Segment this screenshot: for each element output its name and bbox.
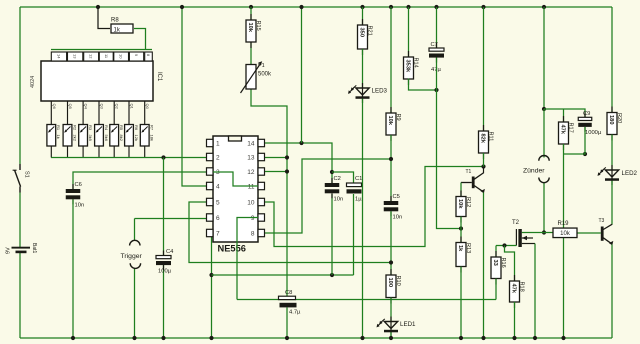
node V+ / R15 [249, 5, 253, 9]
svg-text:10k: 10k [457, 199, 463, 209]
svg-text:180: 180 [608, 115, 614, 125]
IC1 output pin Q4 lead [83, 101, 89, 125]
svg-text:C4: C4 [166, 249, 174, 255]
NE556 pin 4 [207, 182, 221, 190]
svg-text:14: 14 [247, 141, 255, 148]
svg-text:R10: R10 [395, 276, 401, 286]
wire cap ground line (C2-,C1-) [212, 274, 354, 276]
wire left supply column to battery [19, 193, 21, 248]
node GND / C4 [161, 336, 165, 340]
svg-text:S1: S1 [24, 171, 30, 178]
svg-text:R19: R19 [558, 221, 570, 227]
IC IC1 4024 body [30, 61, 162, 101]
resistor R2 [63, 125, 77, 147]
svg-text:Trigger: Trigger [121, 253, 143, 260]
capacitor C1 1µ [347, 176, 363, 203]
wire IC1 top pin bus [51, 49, 152, 51]
wire C9 top line [544, 109, 585, 117]
IC1 output pin Q6 lead [51, 101, 57, 125]
svg-text:2k2: 2k2 [72, 135, 77, 142]
wire rail right end down to R20 [611, 7, 613, 113]
resistor R11 [479, 125, 494, 159]
resistor R19 [553, 221, 577, 238]
wire R17 top lead [563, 109, 565, 122]
svg-text:C5: C5 [393, 194, 400, 200]
svg-text:Q1: Q1 [130, 104, 135, 110]
transistor T3 NPN [599, 218, 614, 245]
svg-text:82k: 82k [479, 134, 485, 144]
node pin14 / V+ drop [299, 141, 303, 145]
IC1 top pin 13 [68, 52, 83, 61]
node Zünder / T2 drain / R19 [542, 230, 546, 234]
svg-text:8k2: 8k2 [119, 135, 124, 142]
wire C2 top to C1 top [332, 172, 354, 183]
node V+ / R8 [96, 5, 100, 9]
svg-text:6: 6 [216, 215, 220, 222]
svg-text:8: 8 [251, 231, 255, 238]
svg-text:9: 9 [251, 215, 255, 222]
node T2 gate / R16 / R18 [502, 243, 506, 247]
resistor R18 [510, 275, 525, 308]
svg-text:Bat1: Bat1 [31, 243, 37, 254]
wire T2 drain line [522, 232, 553, 234]
svg-text:5k6: 5k6 [104, 135, 109, 142]
svg-text:C1: C1 [355, 176, 362, 182]
transistor T1 NPN [461, 169, 485, 193]
wire C5 to R10 node [390, 211, 392, 275]
wire internal pin9 down [237, 218, 258, 300]
LED LED3 [348, 83, 388, 103]
node GND / pin7 [209, 336, 213, 340]
node C9 bottom / R17 [583, 152, 587, 156]
wire NE556 pin 12 stub [265, 171, 288, 173]
svg-text:7: 7 [216, 231, 220, 238]
connector Zünder [523, 155, 549, 182]
resistor R9 [386, 107, 401, 141]
wire R10 to LED1 [390, 298, 392, 322]
svg-text:47k: 47k [559, 125, 565, 135]
capacitor C5 10n [384, 194, 402, 220]
IC1 top pin 10 [114, 52, 129, 61]
svg-text:4024: 4024 [30, 76, 36, 88]
svg-text:11: 11 [248, 184, 255, 191]
svg-text:10n: 10n [334, 197, 344, 203]
wire rail to R11 [483, 7, 485, 131]
capacitor C2 10n [325, 176, 343, 202]
NE556 pin 12 [247, 168, 264, 176]
node V+ / R21 [360, 5, 364, 9]
wire R15 to P1 [250, 42, 252, 65]
IC1 output pin Q0 lead [145, 101, 151, 125]
node pin12 / P1 [285, 169, 289, 173]
transistor T2 N-MOSFET [512, 220, 535, 247]
wire R5 to ground bus [113, 146, 115, 158]
wire R16 bottom to pin9 line [495, 279, 497, 300]
svg-text:13: 13 [247, 155, 255, 162]
svg-text:R18: R18 [519, 282, 525, 292]
wire V+ top rail [20, 6, 612, 8]
svg-text:9V: 9V [6, 247, 12, 254]
wire R9 to C5 node [390, 135, 392, 201]
svg-text:350: 350 [358, 28, 364, 38]
wire Trigger connector lower lead [134, 269, 136, 339]
wire battery to GND rail [19, 253, 21, 338]
NE556 pin 5 [207, 198, 221, 206]
svg-text:R21: R21 [367, 26, 373, 36]
node C4 / pin2 bus [161, 155, 165, 159]
node GND / R18 [512, 336, 516, 340]
wire LED3 to GND [362, 99, 364, 338]
wire T3 emitter to GND [611, 245, 613, 339]
wire C2 bottom lead [331, 194, 333, 275]
LED LED1 [377, 317, 417, 337]
svg-text:10n: 10n [393, 215, 403, 221]
capacitor C4 100µ [156, 249, 174, 275]
svg-text:R13: R13 [465, 243, 471, 253]
wire LED1 to GND [390, 332, 392, 338]
svg-text:R9: R9 [395, 114, 401, 121]
svg-text:R20: R20 [616, 113, 622, 123]
NE556 pin 3 [207, 168, 221, 176]
wire rail to R8 [98, 7, 110, 29]
resistor R14 [404, 51, 419, 85]
capacitor C9 1000µ [578, 111, 602, 136]
wire R16 top lead [495, 246, 497, 258]
svg-text:47k: 47k [510, 284, 516, 294]
NE556 pin 1 [207, 139, 221, 147]
svg-text:P1: P1 [258, 63, 265, 69]
wire pin9 / C8 / R16 line [237, 299, 496, 301]
NE556 pin 2 [207, 153, 221, 161]
NE556 pin 11 [248, 182, 265, 190]
wire P1 to pins 13/12 drop [251, 89, 287, 297]
wire LED2 to T3 collector [611, 181, 613, 225]
svg-text:10n: 10n [75, 203, 85, 209]
resistor R20 [607, 107, 622, 141]
NE556 pin 7 [207, 229, 221, 237]
resistor R16 [491, 251, 506, 285]
capacitor C8 4.7µ [279, 290, 302, 316]
resistor R8 [111, 18, 133, 34]
NE556 pin 14 [247, 139, 264, 147]
wire NE556 pin 13 stub [265, 157, 288, 159]
svg-text:500k: 500k [258, 72, 272, 78]
capacitor C7 47µ [429, 42, 444, 73]
wire T1 base to R12 [460, 183, 462, 197]
wire NE556 pin 7 to GND [211, 237, 213, 338]
wire R11 to T1 node [483, 153, 485, 167]
svg-text:LED1: LED1 [400, 321, 416, 328]
svg-text:12k: 12k [134, 135, 139, 141]
IC1 output pin Q3 lead [99, 101, 105, 125]
IC1 top pin 14 [51, 52, 66, 61]
wire R2 to ground bus [67, 146, 69, 158]
wire R7 to ground bus [144, 146, 146, 158]
NE556 pin 8 [251, 229, 265, 237]
svg-text:R14: R14 [413, 58, 419, 68]
svg-text:Q5: Q5 [68, 104, 73, 110]
svg-text:R6: R6 [134, 125, 139, 131]
svg-text:C9: C9 [583, 111, 590, 117]
wire C7 bottom to junction [436, 58, 438, 90]
IC1 top pin 11 [99, 52, 113, 61]
wire V+ to NE556 pin 4 [182, 7, 207, 186]
IC1 top pin 12 [84, 52, 99, 61]
IC1 top pin 8 [145, 52, 153, 61]
wire rail to R21 [362, 7, 364, 25]
wire C7 node down to R12/R13 junction [437, 90, 462, 229]
node V+ / Zünder [542, 5, 546, 9]
node GND / T2 source [533, 336, 537, 340]
svg-text:1: 1 [216, 141, 220, 148]
wire C1 bottom lead [353, 194, 355, 275]
NE556 pin 6 [207, 214, 221, 222]
NE556 pin 13 [247, 153, 264, 161]
wire R12 to R13 [460, 217, 462, 243]
wire R8 to IC1 supply pin [134, 29, 146, 50]
svg-text:Q3: Q3 [100, 104, 105, 110]
svg-text:C2: C2 [334, 176, 341, 182]
connector Trigger [121, 240, 143, 268]
NE556 pin 9 [251, 214, 265, 222]
svg-text:C6: C6 [75, 182, 82, 188]
node pin5 line / R10 [389, 260, 393, 264]
svg-text:Q2: Q2 [115, 104, 120, 110]
wire R1 to ground bus [50, 146, 52, 158]
svg-text:C7: C7 [431, 42, 438, 48]
resistor R21 [358, 19, 373, 55]
resistor R6 [125, 125, 139, 147]
node pin8 / R9 / C5 [389, 157, 393, 161]
svg-text:10: 10 [119, 54, 124, 59]
node GND / T1 emitter [481, 336, 485, 340]
svg-text:LED3: LED3 [372, 88, 388, 95]
wire T2 source to GND [534, 244, 536, 339]
node C2 bottom [330, 273, 334, 277]
wire left supply column upper [19, 7, 21, 164]
resistor R15 [246, 14, 261, 48]
battery Bat1 9V [6, 243, 38, 254]
svg-text:10k: 10k [247, 23, 253, 33]
resistor R10 [386, 269, 401, 304]
node GND / R13 [459, 336, 463, 340]
switch S1 [13, 164, 30, 193]
wire rail to R15 [250, 7, 252, 20]
resistor R7 [140, 125, 154, 147]
wire R13 to GND [460, 267, 462, 339]
svg-text:R16: R16 [500, 258, 506, 268]
node pin 3 junction [208, 170, 212, 174]
svg-text:1µ: 1µ [355, 197, 362, 203]
svg-text:14: 14 [56, 54, 61, 59]
svg-text:1k: 1k [56, 135, 61, 139]
node V+ / R11 [481, 5, 485, 9]
svg-text:T2: T2 [512, 220, 520, 226]
NE556 pin 10 [247, 198, 264, 206]
svg-text:Q0: Q0 [145, 104, 150, 110]
svg-text:R5: R5 [119, 125, 124, 131]
wire R21 to LED3 [362, 49, 364, 88]
resistor R4 [95, 125, 109, 147]
node R12 / R13 / C7 line [459, 226, 463, 230]
wire rail to C7 [436, 7, 438, 48]
node GND / LED3 [360, 336, 364, 340]
svg-text:1k: 1k [114, 27, 121, 33]
wire C4 bottom to GND [163, 265, 165, 338]
IC U2 NE556 body [213, 136, 258, 254]
node C7 / R14 [434, 88, 438, 92]
svg-text:10: 10 [247, 200, 255, 207]
svg-text:R7: R7 [150, 125, 155, 131]
resistor R13 [456, 237, 471, 273]
svg-text:33: 33 [492, 260, 498, 266]
wire R6 to ground bus [128, 146, 130, 158]
svg-text:12: 12 [247, 169, 255, 176]
wire T1 collector up [483, 167, 485, 174]
wire Zünder upper lead [543, 109, 545, 158]
svg-text:2: 2 [216, 155, 220, 162]
svg-text:Q4: Q4 [84, 104, 89, 110]
svg-text:10k: 10k [560, 231, 571, 237]
wire rail to R14 [408, 7, 410, 57]
svg-text:100µ: 100µ [158, 269, 172, 275]
IC1 output pin Q2 lead [114, 101, 120, 125]
resistor R17 [559, 116, 574, 150]
node pin13 / P1 [285, 155, 289, 159]
svg-text:12: 12 [89, 54, 94, 59]
wire T1 emitter to GND [483, 193, 485, 339]
svg-text:R11: R11 [488, 132, 494, 142]
svg-text:1k: 1k [457, 245, 463, 252]
capacitor C6 10n [66, 182, 84, 208]
node V+ / R14 [406, 5, 410, 9]
wire resistor bus to NE556 pin 2 [51, 157, 207, 159]
wire R18 to GND [514, 302, 516, 338]
svg-text:R3: R3 [88, 125, 93, 131]
svg-text:3k9: 3k9 [88, 135, 93, 142]
IC1 top pin 9 [129, 52, 143, 61]
wire V+ drop to pin14 line [301, 7, 303, 143]
node V+ / R9 [389, 5, 393, 9]
wire C8 bottom to GND [286, 307, 288, 338]
svg-text:353k: 353k [404, 60, 410, 73]
wire NE556 pin 14 to caps [265, 143, 333, 183]
resistor R1 [47, 125, 61, 147]
resistor R5 [110, 125, 124, 147]
potentiometer P1 500k [241, 61, 273, 93]
node GND / LED1 [389, 336, 393, 340]
wire R14 to C7 node [409, 79, 437, 91]
svg-text:R1: R1 [56, 125, 61, 131]
IC1 output pin Q1 lead [129, 101, 135, 125]
wire T2 gate line [496, 245, 516, 247]
wire gate node to R18 [505, 246, 515, 282]
svg-text:C8: C8 [285, 290, 292, 296]
resistor R12 [456, 191, 471, 223]
svg-text:13: 13 [73, 54, 78, 59]
wire rail to R9 [390, 7, 392, 113]
wire R20 to LED2 [611, 135, 613, 171]
svg-text:R4: R4 [104, 125, 109, 131]
wire R4 to ground bus [98, 146, 100, 158]
node GND / C6 [71, 336, 75, 340]
wire C9 bottom to R17 column [564, 127, 586, 154]
svg-text:NE556: NE556 [218, 244, 246, 254]
svg-text:4.7µ: 4.7µ [289, 310, 301, 316]
wire internal pin3 to pin11 [213, 172, 258, 186]
node C2 top / C1 top [330, 170, 334, 174]
wire C6 to NE556 pin 3 [73, 172, 207, 189]
svg-text:IC1: IC1 [156, 72, 162, 82]
wire NE556 pin 8 to R9 node [265, 159, 392, 233]
wire Zünder lower lead [543, 183, 545, 233]
svg-text:R8: R8 [111, 18, 119, 24]
svg-text:R17: R17 [568, 123, 574, 133]
wire GND bottom rail [20, 337, 612, 339]
svg-text:LED2: LED2 [622, 170, 638, 177]
wire C4 top lead [163, 158, 165, 256]
node GND / C8 [285, 336, 289, 340]
node GND / R17 [561, 336, 565, 340]
svg-text:10k: 10k [387, 116, 393, 126]
svg-text:R12: R12 [465, 197, 471, 207]
wire NE556 pin 10 to T1 collector [265, 167, 484, 247]
node V+ / pin14 [299, 5, 303, 9]
svg-text:100: 100 [387, 278, 393, 288]
node Zünder / R17 / C9 [542, 107, 546, 111]
svg-text:Q6: Q6 [52, 104, 57, 110]
wire rail to Zünder node [543, 7, 545, 109]
svg-text:5: 5 [216, 200, 220, 207]
wire R19 to T3 base [577, 232, 601, 234]
svg-text:T3: T3 [599, 218, 605, 224]
LED LED2 [598, 165, 638, 185]
IC1 output pin Q5 lead [68, 101, 74, 125]
svg-text:18k: 18k [150, 135, 155, 141]
wire C6 bottom to GND [72, 200, 74, 339]
svg-text:R15: R15 [255, 21, 261, 31]
wire R3 to ground bus [82, 146, 84, 158]
wire Trigger to NE556 pin 6 [135, 218, 207, 220]
wire Trigger connector upper lead [134, 219, 136, 241]
node V+ / pin4 drop [180, 5, 184, 9]
node GND / Trigger [132, 336, 136, 340]
svg-text:Zünder: Zünder [523, 168, 545, 175]
node R11 / T1 collector [481, 164, 485, 168]
node pin7 / cap gnd line [209, 273, 213, 277]
wire R17 to GND [563, 144, 565, 338]
wire NE556 pin 5 to out line [189, 202, 391, 263]
svg-text:R2: R2 [72, 125, 77, 131]
svg-text:T1: T1 [466, 169, 472, 175]
resistor R3 [79, 125, 93, 147]
svg-text:1000µ: 1000µ [585, 130, 602, 136]
node V+ / C7 [434, 5, 438, 9]
svg-text:4: 4 [216, 184, 220, 191]
